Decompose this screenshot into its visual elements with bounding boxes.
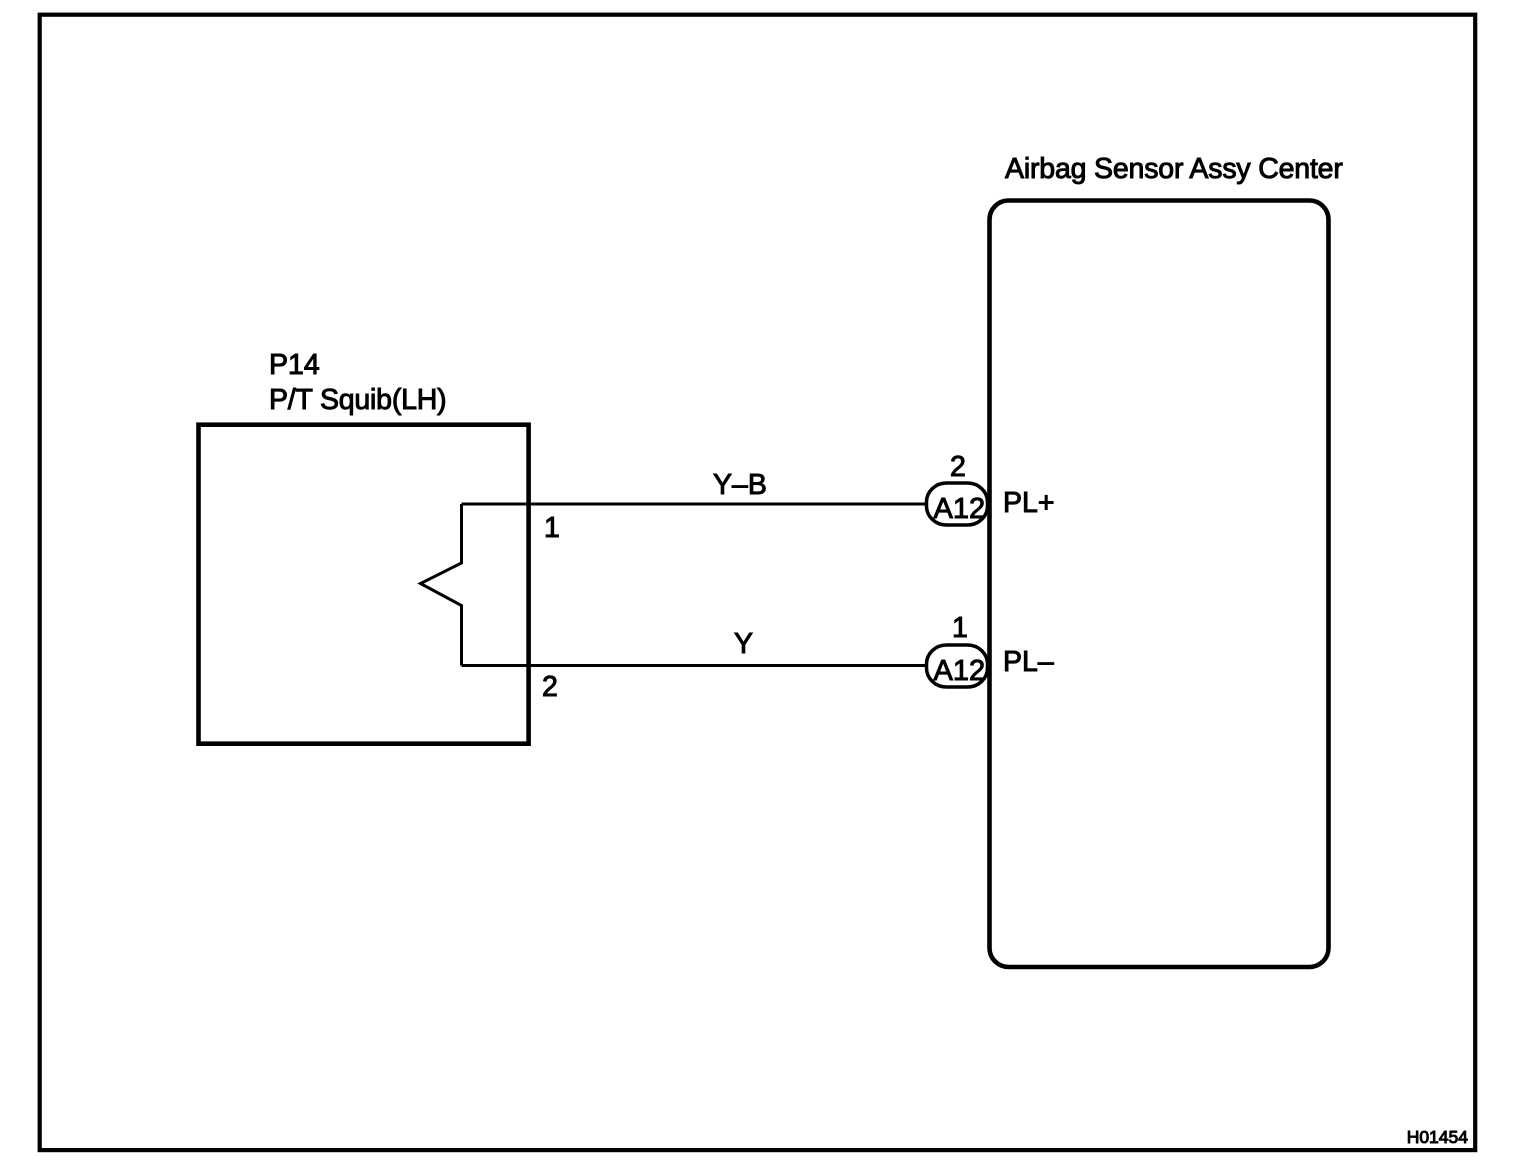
connector P14 box [199, 425, 529, 744]
svg-text:2: 2 [950, 451, 966, 483]
svg-text:P/T Squib(LH): P/T Squib(LH) [269, 384, 446, 416]
svg-text:1: 1 [544, 512, 560, 544]
Airbag Sensor Assy Center box [990, 201, 1329, 968]
wire Y [462, 664, 931, 667]
svg-text:H01454: H01454 [1407, 1127, 1469, 1147]
svg-text:1: 1 [952, 612, 968, 644]
svg-text:P14: P14 [269, 349, 320, 381]
svg-text:Airbag Sensor Assy Center: Airbag Sensor Assy Center [1005, 153, 1343, 185]
svg-text:Y: Y [734, 628, 753, 660]
connector P14 terminal notch [421, 504, 462, 666]
svg-text:2: 2 [542, 671, 558, 703]
connector oval A12 (PL+) [927, 483, 988, 525]
svg-text:Y–B: Y–B [713, 469, 767, 501]
svg-text:A12: A12 [934, 655, 986, 687]
svg-text:A12: A12 [934, 493, 986, 525]
svg-text:PL–: PL– [1003, 646, 1054, 678]
connector oval A12 (PL-) [927, 645, 988, 687]
wire Y-B [462, 503, 931, 506]
svg-text:PL+: PL+ [1003, 487, 1055, 519]
